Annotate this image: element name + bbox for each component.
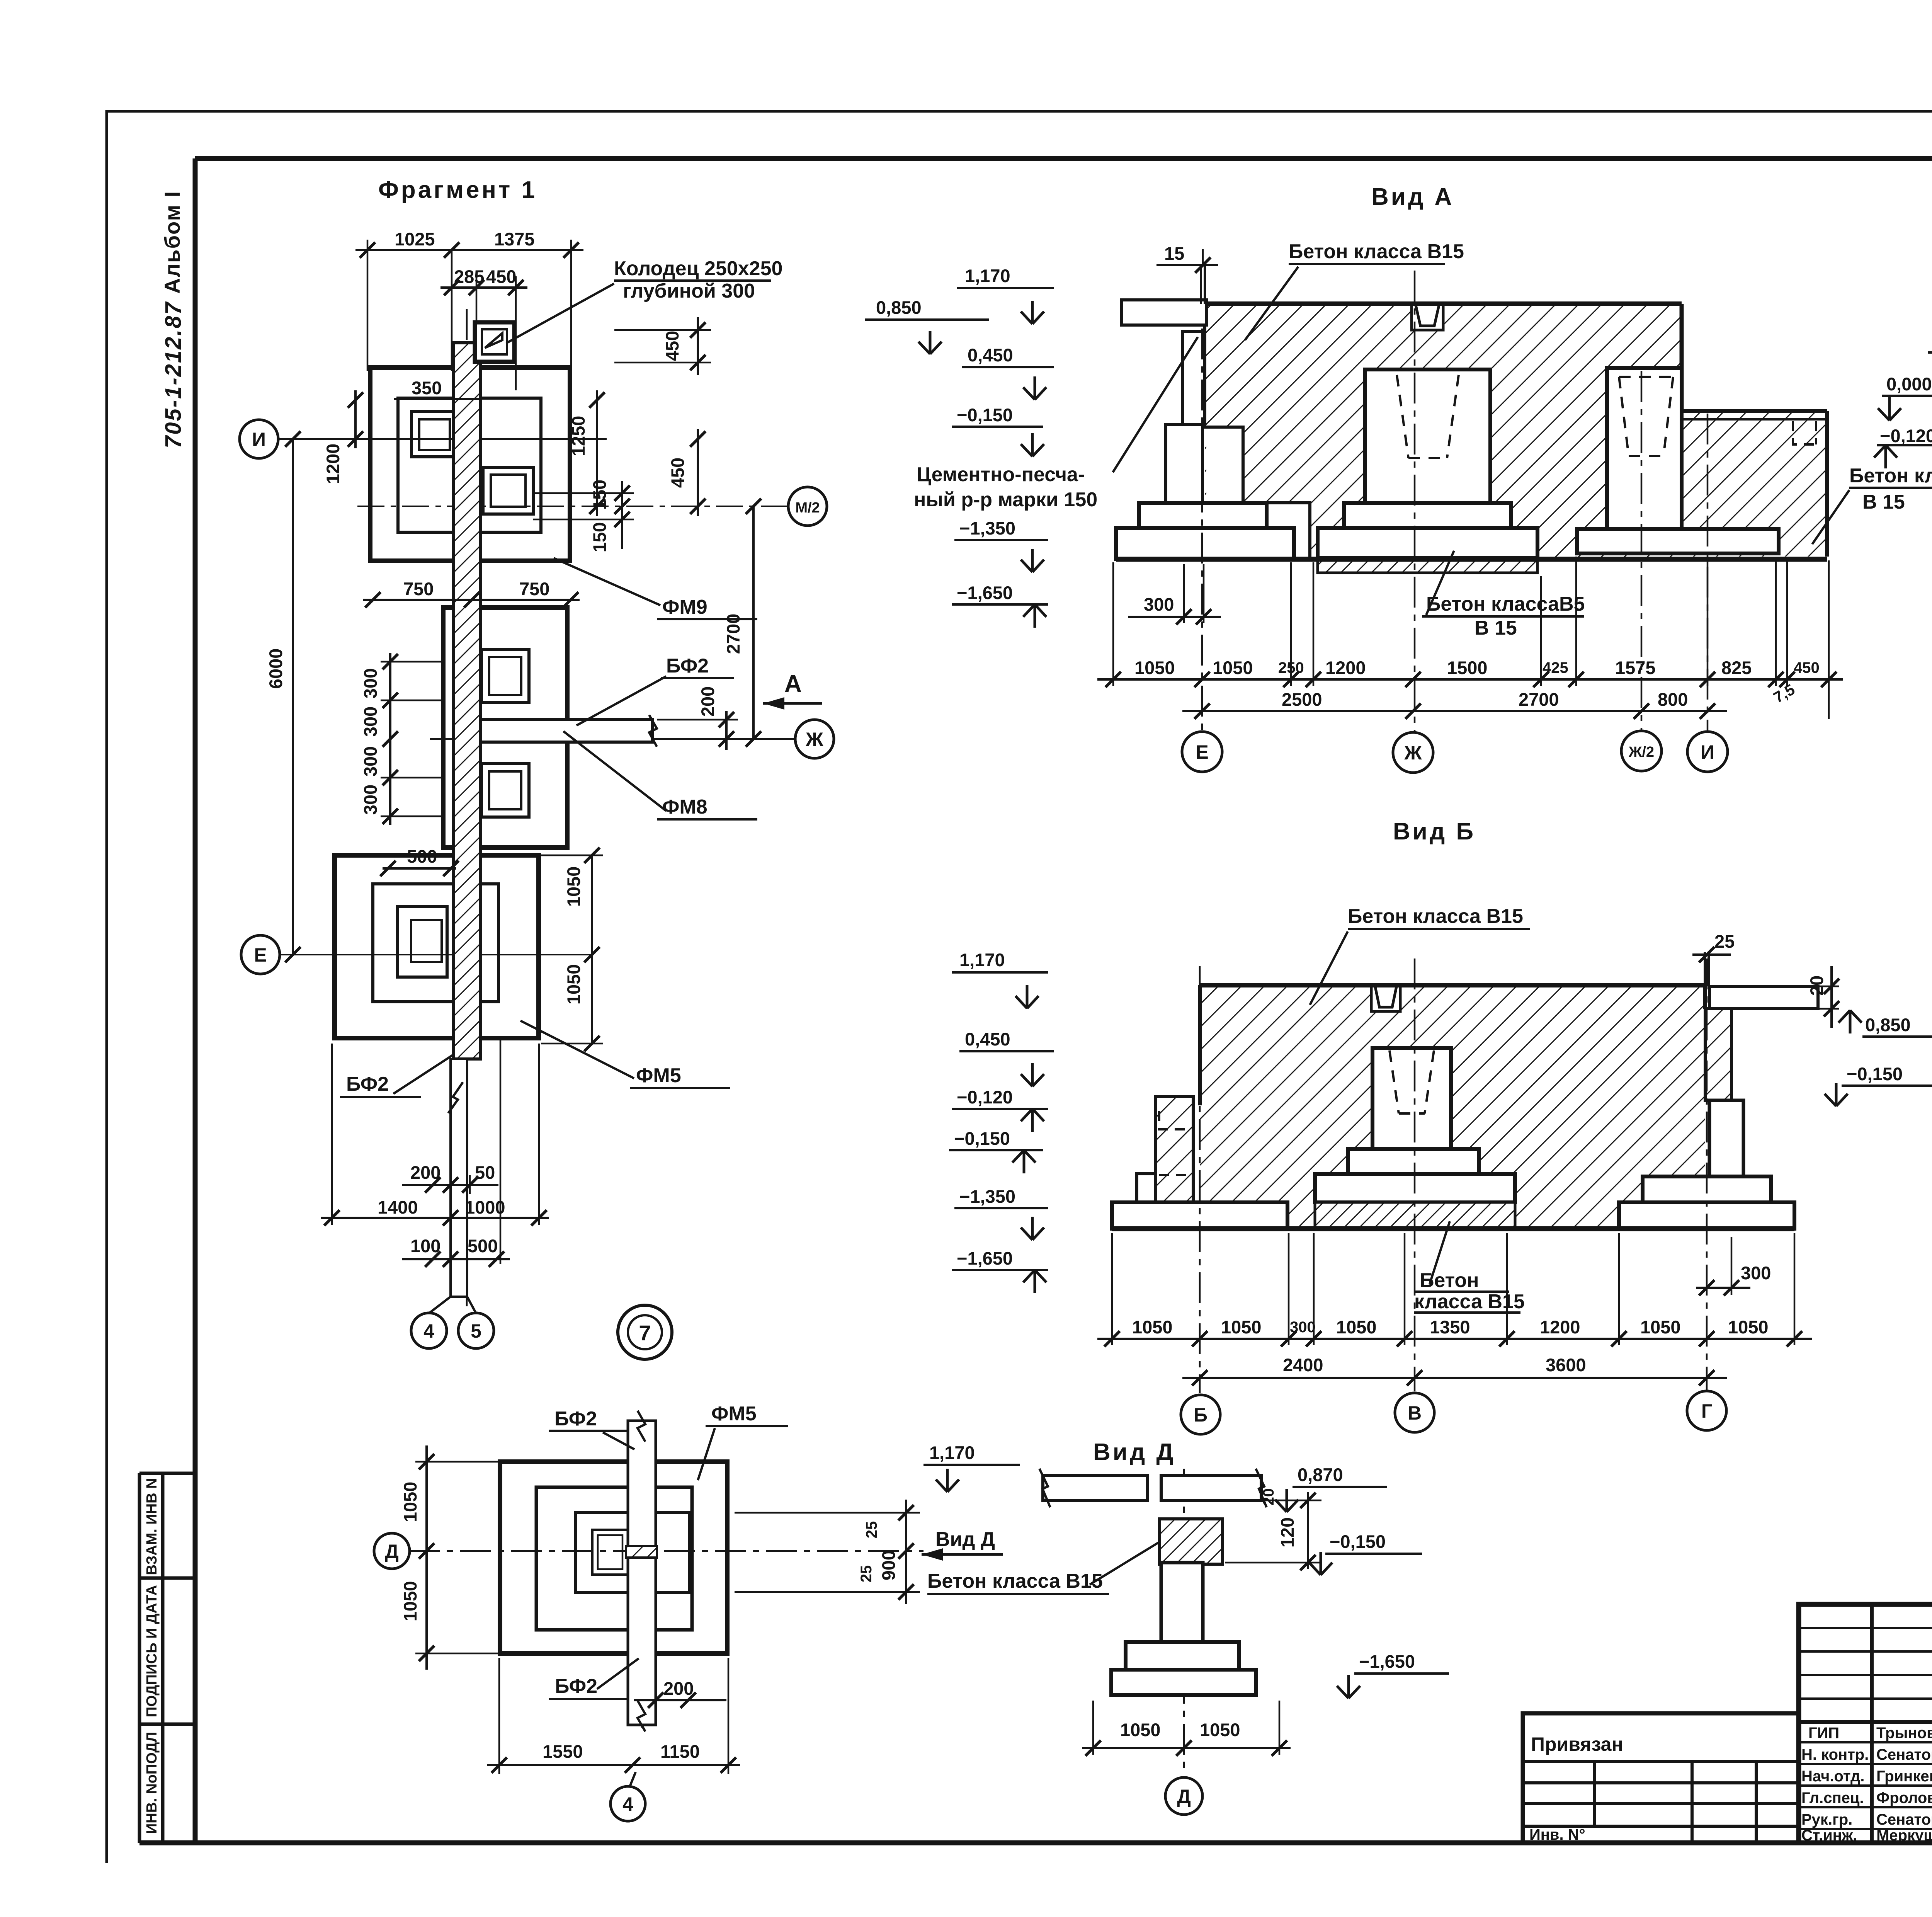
axis line I: [278, 438, 607, 440]
svg-text:1050: 1050: [1120, 1720, 1161, 1740]
beam breaks node4: [638, 1411, 645, 1731]
svg-text:Инв. N°: Инв. N°: [1529, 1826, 1585, 1843]
svg-text:2700: 2700: [1519, 689, 1559, 710]
svg-text:25: 25: [1714, 931, 1735, 952]
svg-text:глубиной 300: глубиной 300: [623, 280, 755, 302]
svg-text:1050: 1050: [1221, 1317, 1262, 1337]
slab right bar vidD: [1161, 1476, 1261, 1500]
svg-text:500: 500: [407, 846, 437, 867]
axis circle D vidD: [1165, 1777, 1202, 1815]
svg-text:−1,650: −1,650: [957, 582, 1013, 603]
top notch: [1412, 304, 1443, 330]
svg-text:1050: 1050: [400, 1581, 420, 1622]
svg-text:0,870: 0,870: [1298, 1464, 1343, 1485]
dim chain 2: [1182, 710, 1727, 712]
name rows horizontals: [1799, 1742, 1932, 1829]
axis circle M/2: [788, 487, 827, 526]
extension verticals chain1: [1113, 557, 1829, 719]
svg-text:285: 285: [454, 266, 484, 287]
FM9 pocket left inner: [419, 419, 450, 450]
inner frame top: [195, 156, 1932, 161]
svg-text:БФ2: БФ2: [346, 1073, 389, 1095]
monolith hatch block B: [1200, 985, 1705, 1229]
verticals of left table: [1872, 1604, 1932, 1843]
dim 285 450 line: [440, 286, 527, 289]
svg-text:750: 750: [519, 579, 549, 599]
svg-text:1050: 1050: [563, 964, 584, 1005]
base vidD: [1111, 1670, 1256, 1695]
center steps B: [1348, 1149, 1479, 1174]
left pier plate: [1116, 528, 1294, 559]
svg-text:ФМ5: ФМ5: [711, 1403, 757, 1425]
center column pocket dashed: [1397, 375, 1459, 458]
dim 1025 1375 line: [355, 249, 583, 251]
svg-text:450: 450: [1794, 659, 1820, 676]
svg-text:БФ2: БФ2: [666, 655, 709, 677]
svg-text:Бетон класса В15: Бетон класса В15: [927, 1570, 1103, 1592]
revision rows horizontals: [1799, 1628, 1932, 1699]
svg-text:300: 300: [360, 746, 381, 776]
svg-text:В: В: [1408, 1402, 1422, 1424]
svg-text:0,450: 0,450: [968, 345, 1013, 365]
beam BF2 at Zh white over wall: [480, 720, 652, 742]
svg-text:ный р-р марки 150: ный р-р марки 150: [914, 489, 1097, 511]
svg-text:1050: 1050: [1336, 1317, 1377, 1337]
center steps: [1344, 503, 1511, 528]
outer box: [1799, 1604, 1932, 1843]
svg-text:Альбом I: Альбом I: [160, 191, 184, 294]
svg-text:класса В15: класса В15: [1414, 1290, 1525, 1313]
svg-text:0,450: 0,450: [965, 1029, 1010, 1049]
right small pocket dashed: [1793, 421, 1816, 444]
dim chain B1: [1097, 1338, 1812, 1340]
svg-text:150: 150: [589, 522, 610, 552]
svg-text:1000: 1000: [465, 1197, 505, 1217]
footing FM8 outer: [443, 608, 567, 848]
svg-text:4: 4: [423, 1320, 434, 1342]
left pier hatched B: [1155, 1096, 1193, 1202]
left plate B: [1112, 1202, 1287, 1229]
right zone right edge: [1825, 411, 1829, 557]
dim chain B2: [1182, 1377, 1727, 1379]
svg-text:2400: 2400: [1283, 1355, 1323, 1375]
svg-text:705-1-212.87: 705-1-212.87: [161, 301, 186, 448]
axis circle V: [1395, 1393, 1434, 1432]
svg-text:800: 800: [1658, 689, 1688, 710]
svg-text:ГИП: ГИП: [1808, 1725, 1839, 1742]
svg-text:1550: 1550: [543, 1741, 583, 1762]
svg-text:Вид Б: Вид Б: [1393, 818, 1476, 845]
svg-text:450: 450: [667, 458, 688, 488]
svg-text:Цементно-песча-: Цементно-песча-: [917, 463, 1085, 486]
svg-text:2700: 2700: [723, 614, 743, 654]
svg-text:1025: 1025: [395, 229, 435, 249]
hatched joint block vidD: [1160, 1519, 1223, 1564]
svg-text:Нач.отд.: Нач.отд.: [1801, 1768, 1864, 1785]
svg-text:1050: 1050: [1213, 657, 1253, 678]
svg-text:500: 500: [468, 1236, 498, 1256]
verticals: [1594, 1761, 1756, 1843]
svg-text:Г: Г: [1701, 1400, 1712, 1422]
floor slab left: [1121, 300, 1206, 325]
svg-text:−1,350: −1,350: [959, 1186, 1015, 1207]
axis circle I: [240, 420, 278, 458]
dim chain 1: [1097, 678, 1843, 681]
carve right steps zone: [1643, 1176, 1705, 1202]
svg-text:15: 15: [1164, 243, 1184, 264]
beam strip vertical node4: [628, 1421, 656, 1725]
svg-text:Сенаторов: Сенаторов: [1876, 1746, 1932, 1763]
projection line left of wall: [451, 250, 453, 371]
svg-text:ИНВ. NоПОДЛ: ИНВ. NоПОДЛ: [144, 1732, 160, 1834]
svg-text:1500: 1500: [1447, 657, 1488, 678]
footing FM5 outer: [335, 855, 539, 1038]
main horizontal above names: [1799, 1720, 1932, 1724]
slab pin B: [1705, 952, 1709, 986]
svg-text:1,170: 1,170: [965, 266, 1010, 286]
FM5 innermost: [411, 920, 442, 962]
svg-text:Бетон класса В15: Бетон класса В15: [1348, 905, 1523, 928]
svg-text:0,850: 0,850: [1865, 1015, 1911, 1035]
svg-text:300: 300: [1741, 1263, 1771, 1283]
svg-text:1,170: 1,170: [959, 950, 1005, 970]
axis circle Zh: [795, 720, 834, 758]
svg-text:2500: 2500: [1282, 689, 1322, 710]
column vidD: [1161, 1563, 1203, 1642]
svg-text:Ж: Ж: [1404, 742, 1422, 764]
svg-text:1200: 1200: [1540, 1317, 1580, 1337]
block right edge: [1680, 304, 1684, 411]
svg-text:Ст.инж.: Ст.инж.: [1801, 1827, 1857, 1844]
center plate: [1318, 528, 1537, 558]
axis circle G: [1687, 1391, 1726, 1430]
footing FM9 outer: [370, 368, 570, 561]
svg-text:Сенаторов: Сенаторов: [1876, 1811, 1932, 1828]
wall strip hatched: [453, 343, 480, 1059]
inner frame bottom: [139, 1840, 1932, 1845]
ground line: [1116, 557, 1827, 562]
projection line well right: [515, 276, 517, 390]
svg-text:−0,150: −0,150: [1330, 1531, 1386, 1552]
pier hatch right: [1705, 1009, 1731, 1100]
well diag flag: [485, 333, 502, 348]
right column B: [1709, 1100, 1743, 1176]
block left edge B: [1198, 985, 1202, 1105]
axis centerlines B: [1200, 958, 1707, 1393]
svg-text:БФ2: БФ2: [555, 1675, 597, 1697]
block top edge B: [1200, 983, 1705, 987]
vertical centerline node4: [641, 1430, 643, 1728]
inner square node4: [576, 1513, 690, 1592]
svg-text:20: 20: [1260, 1488, 1277, 1506]
svg-text:1200: 1200: [1325, 657, 1366, 678]
left pier wide column: [1166, 424, 1202, 503]
axis centerlines vertical: [1202, 271, 1708, 732]
right column pocket dashed: [1619, 377, 1673, 456]
ext lines for 300s: [381, 662, 444, 816]
svg-text:−0,120: −0,120: [1880, 426, 1932, 446]
svg-text:50: 50: [475, 1162, 495, 1183]
svg-text:ФМ9: ФМ9: [662, 596, 707, 618]
svg-text:7: 7: [639, 1321, 651, 1345]
axis circle B: [1181, 1395, 1220, 1434]
svg-text:0,850: 0,850: [876, 297, 922, 318]
carve left notch: [1206, 427, 1243, 559]
svg-text:120: 120: [1277, 1517, 1298, 1548]
extension verticals bottom: [332, 1040, 539, 1264]
svg-text:300: 300: [1290, 1319, 1316, 1336]
left pier step: [1139, 503, 1267, 528]
svg-text:Меркушина: Меркушина: [1876, 1827, 1932, 1844]
monolith hatch block: [1205, 304, 1682, 559]
joint hatch node4: [626, 1546, 657, 1558]
underlay hatch band B: [1315, 1202, 1515, 1229]
FM5 inner: [398, 907, 447, 977]
svg-text:Вид Д: Вид Д: [1093, 1439, 1176, 1466]
axis circle E: [1182, 732, 1222, 772]
FM8 pocket upper inner: [489, 657, 521, 695]
axis circle Zh: [1393, 732, 1433, 773]
svg-text:250: 250: [1278, 659, 1304, 676]
axis line E: [280, 954, 591, 955]
svg-text:Трынов: Трынов: [1876, 1725, 1932, 1742]
svg-text:Гринкевич: Гринкевич: [1876, 1768, 1932, 1785]
svg-text:1050: 1050: [1640, 1317, 1681, 1337]
svg-text:1050: 1050: [1728, 1317, 1769, 1337]
axis line Zh: [430, 738, 795, 740]
slab left bar vidD: [1043, 1476, 1148, 1500]
svg-text:150: 150: [589, 480, 610, 510]
svg-text:300: 300: [360, 707, 381, 737]
svg-text:ПОДПИСЬ И ДАТА: ПОДПИСЬ И ДАТА: [144, 1585, 160, 1717]
right plate B: [1619, 1202, 1794, 1229]
right zone hatch: [1682, 411, 1827, 557]
axis line M/2 dashdot: [357, 506, 788, 507]
svg-text:350: 350: [412, 378, 442, 398]
center plate B: [1315, 1174, 1515, 1202]
svg-text:Бетон класса В15: Бетон класса В15: [1289, 240, 1464, 263]
underlay hatch band center: [1318, 558, 1537, 573]
svg-text:6000: 6000: [265, 649, 286, 689]
svg-text:Ж/2: Ж/2: [1628, 744, 1654, 760]
lower beam break: [448, 1082, 463, 1113]
projection line 1025 left: [367, 240, 369, 371]
svg-text:Н. контр.: Н. контр.: [1801, 1746, 1869, 1763]
FM8 pocket lower inner: [489, 771, 521, 809]
svg-text:1400: 1400: [378, 1197, 418, 1217]
svg-text:Колодец 250х250: Колодец 250х250: [614, 257, 782, 280]
inner frame left: [193, 158, 198, 1843]
right plate: [1577, 529, 1779, 553]
svg-text:−1,650: −1,650: [1359, 1651, 1415, 1672]
center pocket dashed B: [1389, 1050, 1434, 1113]
mid square node4: [536, 1487, 692, 1630]
footing FM9 mid: [398, 398, 541, 532]
privjazan table: [1523, 1713, 1799, 1843]
svg-text:5: 5: [471, 1320, 481, 1342]
svg-text:Ж: Ж: [805, 729, 823, 750]
step vidD: [1126, 1642, 1239, 1670]
svg-text:1050: 1050: [563, 867, 584, 907]
beam break mark right: [649, 715, 657, 747]
svg-text:ФМ5: ФМ5: [636, 1064, 681, 1087]
block top edge: [1205, 301, 1682, 306]
svg-text:900: 900: [878, 1550, 899, 1580]
well outer: [475, 322, 514, 362]
rows: [1523, 1761, 1799, 1826]
axis line D horizontal: [409, 1550, 923, 1552]
svg-text:Фрагмент 1: Фрагмент 1: [378, 177, 537, 203]
svg-text:−0,150: −0,150: [954, 1128, 1010, 1149]
names and signatures: [1801, 1723, 1932, 1844]
svg-text:825: 825: [1721, 657, 1752, 678]
svg-text:Рук.гр.: Рук.гр.: [1801, 1811, 1852, 1828]
svg-text:1,170: 1,170: [929, 1442, 975, 1463]
projection line well left: [476, 276, 478, 321]
left pier narrow column: [1182, 332, 1205, 424]
outer square node4: [500, 1462, 727, 1653]
block left edge: [1205, 304, 1310, 559]
svg-text:300: 300: [360, 668, 381, 698]
axis circle Zh/2: [1621, 731, 1662, 771]
left pier dashed pocket: [1159, 1111, 1193, 1175]
axis circle E: [241, 935, 280, 974]
svg-text:И: И: [1701, 741, 1714, 763]
FM8 pocket upper: [481, 649, 529, 703]
svg-text:100: 100: [410, 1236, 440, 1256]
axis circle I: [1687, 732, 1728, 772]
node circle 4 detail: [630, 1772, 636, 1786]
svg-text:Д: Д: [1177, 1786, 1191, 1807]
svg-text:−0,120: −0,120: [957, 1087, 1013, 1107]
right column: [1607, 368, 1682, 529]
svg-text:200: 200: [663, 1678, 694, 1699]
svg-text:1575: 1575: [1615, 657, 1656, 678]
svg-text:Гл.спец.: Гл.спец.: [1801, 1789, 1864, 1806]
well inner: [482, 329, 507, 354]
svg-text:ВЗАМ. ИНВ N: ВЗАМ. ИНВ N: [144, 1478, 160, 1575]
projection line right 1375: [570, 240, 572, 371]
FM9 pocket right: [483, 468, 533, 514]
slab right B: [1709, 986, 1818, 1009]
svg-text:200: 200: [697, 686, 718, 717]
svg-text:1050: 1050: [1132, 1317, 1173, 1337]
dim 750 750: [363, 599, 580, 601]
svg-text:425: 425: [1543, 659, 1568, 676]
axis circle D node4: [374, 1533, 410, 1569]
svg-text:300: 300: [1144, 594, 1174, 615]
FM8 pocket lower: [481, 764, 529, 817]
svg-text:М/2: М/2: [795, 500, 820, 516]
svg-text:Д: Д: [385, 1541, 399, 1562]
svg-text:Фролова: Фролова: [1876, 1789, 1932, 1806]
svg-text:−0,150: −0,150: [1847, 1064, 1903, 1084]
innermost node4: [592, 1530, 628, 1575]
block right edge B: [1703, 985, 1707, 1009]
slab break marks vidD: [1039, 1469, 1267, 1507]
center column B: [1372, 1048, 1451, 1149]
svg-text:Бетон класса: Бетон класса: [1849, 465, 1932, 487]
svg-text:0,000: 0,000: [1886, 374, 1932, 394]
node circles 4 5: [429, 1297, 476, 1313]
svg-text:3600: 3600: [1546, 1355, 1586, 1375]
svg-text:БФ2: БФ2: [554, 1408, 597, 1430]
svg-text:И: И: [252, 429, 266, 450]
top notch B: [1371, 985, 1400, 1011]
margin boxes column: [139, 1473, 195, 1843]
svg-text:Вид А: Вид А: [1371, 184, 1454, 210]
center column: [1365, 369, 1490, 503]
svg-text:1200: 1200: [323, 444, 343, 484]
slab pin double line: [1201, 266, 1205, 304]
svg-text:В 15: В 15: [1475, 617, 1517, 639]
extension verticals chain B: [1112, 1233, 1794, 1345]
svg-text:450: 450: [662, 331, 682, 361]
left small step B: [1137, 1174, 1155, 1202]
FM9 pocket right inner: [491, 475, 526, 507]
svg-text:Вид Д: Вид Д: [935, 1528, 995, 1551]
svg-text:300: 300: [360, 785, 381, 815]
svg-text:А: А: [784, 671, 802, 697]
svg-text:Е: Е: [1196, 741, 1208, 763]
wall centerline: [466, 309, 468, 1306]
svg-text:450: 450: [486, 266, 516, 287]
svg-text:1375: 1375: [494, 229, 535, 249]
outer: [1523, 1713, 1799, 1843]
svg-text:ФМ8: ФМ8: [662, 796, 707, 818]
svg-text:−1,650: −1,650: [957, 1248, 1013, 1268]
svg-text:1150: 1150: [660, 1741, 700, 1762]
right steps B: [1643, 1176, 1771, 1202]
svg-text:1050: 1050: [1200, 1720, 1240, 1740]
FM9 pocket left: [412, 412, 455, 457]
lower beam BF2 strip: [451, 1059, 467, 1297]
svg-text:Привязан: Привязан: [1531, 1733, 1623, 1755]
carve left bottom: [1205, 503, 1311, 559]
svg-text:1250: 1250: [568, 416, 588, 456]
svg-text:−0,150: −0,150: [957, 405, 1013, 425]
ground line B: [1112, 1226, 1794, 1231]
axis centerline vidD: [1183, 1469, 1185, 1774]
svg-text:Е: Е: [254, 944, 267, 966]
svg-text:Б: Б: [1194, 1404, 1207, 1426]
FM5 mid: [373, 884, 498, 1002]
right zone top surface: [1682, 409, 1827, 413]
svg-text:750: 750: [403, 579, 434, 599]
svg-text:4: 4: [622, 1793, 633, 1815]
svg-text:В 15: В 15: [1862, 491, 1905, 513]
svg-text:25: 25: [858, 1565, 875, 1583]
svg-text:1050: 1050: [1134, 657, 1175, 678]
svg-text:25: 25: [863, 1521, 880, 1539]
svg-text:−1,350: −1,350: [959, 518, 1015, 538]
svg-text:Бетон классаВ5: Бетон классаВ5: [1426, 593, 1585, 615]
svg-text:Бетон: Бетон: [1420, 1269, 1479, 1292]
svg-text:1350: 1350: [1430, 1317, 1470, 1337]
kolodec leader: [506, 284, 614, 343]
svg-text:1050: 1050: [400, 1482, 420, 1522]
